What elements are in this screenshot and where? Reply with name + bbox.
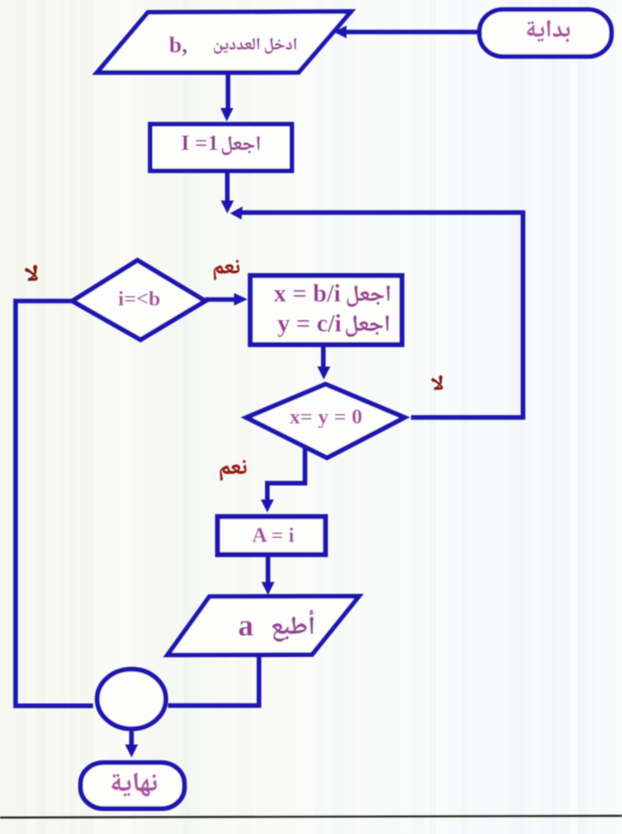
scan line at page bottom — [0, 816, 622, 818]
arrowhead into rect x=b/i — [234, 293, 248, 306]
label 'اجعل' (let) line2 — [346, 315, 389, 336]
svg-text:y = c/i: y = c/i — [277, 310, 341, 337]
output parallelogram: أطبع a — [168, 596, 360, 655]
svg-text:a: a — [238, 607, 254, 642]
process rect: اجعل I=1 — [150, 124, 292, 171]
label 'نعم' (yes) below diamond2 — [220, 460, 246, 481]
input parallelogram: ادخل العددين b, — [97, 12, 351, 73]
start terminator (stadium) بداية — [480, 10, 612, 57]
label 'العددين' (the two numbers) — [214, 38, 260, 54]
decision diamond x=y=0 — [247, 384, 405, 458]
decision diamond i=<b — [72, 260, 205, 339]
label 'ادخل' (input) — [265, 38, 297, 54]
wire: parallelogram to process rect I=1 — [226, 73, 231, 112]
svg-text:I =1: I =1 — [181, 130, 219, 155]
arrowhead pointing down at junction — [221, 201, 234, 214]
process rect: A = i — [218, 517, 326, 555]
arrowhead into output parallelogram — [262, 582, 275, 595]
arrowhead pointing left at junction — [230, 207, 243, 220]
wire: start stadium to input parallelogram — [344, 30, 479, 35]
svg-text:i=<b: i=<b — [118, 287, 160, 311]
arrowhead into diamond2 — [317, 367, 330, 380]
wire: rect A=i to output parallelogram — [266, 555, 271, 586]
svg-text:x = b/i: x = b/i — [274, 280, 341, 307]
label 'لا' (no) at left branch — [25, 265, 38, 281]
label 'نعم' (yes) at diamond1 — [214, 260, 240, 281]
svg-text:b,: b, — [169, 33, 188, 58]
label 'اجعل' (let) in I=1 box — [222, 136, 260, 155]
svg-text:x= y = 0: x= y = 0 — [290, 404, 363, 428]
connector circle — [97, 669, 166, 729]
label 'نهاية' (end) — [112, 773, 157, 797]
wire: parallelogram2 down then left to connector circle — [168, 655, 259, 706]
process rect: x=b/i, y=c/i — [250, 276, 402, 345]
wire: diamond1 right to rect x=b/i — [205, 297, 238, 302]
loop wire: from right side back to junction — [239, 213, 523, 418]
wire: diamond2 bottom-left exit, step to rect A=i — [267, 447, 305, 503]
end terminator (stadium) نهاية — [81, 763, 185, 809]
arrowhead into rect I=1 — [221, 108, 234, 122]
wire: rect2 to diamond2 — [321, 345, 326, 371]
arrowhead into parallelogram — [334, 26, 347, 39]
arrowhead into end stadium — [125, 745, 138, 758]
wire: circle to end stadium — [129, 731, 134, 748]
label 'اجعل' (let) line1 — [347, 285, 390, 306]
svg-text:A = i: A = i — [252, 523, 294, 547]
label 'بداية' (start) — [527, 20, 570, 42]
label 'لا' (no) at right branch — [431, 375, 443, 389]
arrowhead into rect A=i — [261, 500, 274, 513]
wire: rect I=1 down to loop junction — [225, 171, 230, 203]
wire: diamond1 left, down the left margin, to connector circle — [16, 301, 93, 706]
label 'أطبع' (print) — [272, 610, 313, 642]
